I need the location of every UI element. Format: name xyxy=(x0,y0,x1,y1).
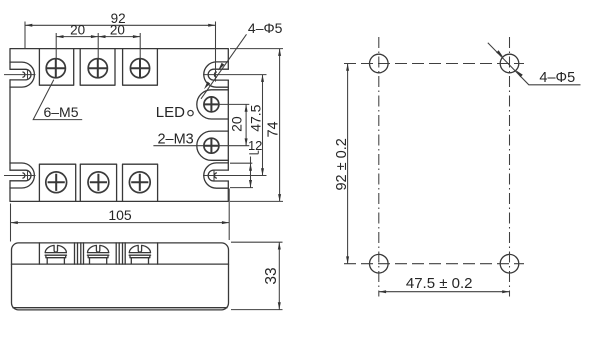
svg-text:92 ± 0.2: 92 ± 0.2 xyxy=(334,138,350,190)
mounting pattern hole top-right xyxy=(500,54,519,73)
control terminal tab upper (LED input) xyxy=(197,90,229,119)
svg-text:20: 20 xyxy=(70,23,85,38)
terminal T4 screw xyxy=(46,172,67,193)
dimension 20 right side (control terminal spacing) xyxy=(218,104,249,145)
dimension 74 right side xyxy=(230,49,283,202)
terminal T3 screw xyxy=(130,59,149,78)
control terminal screw lower xyxy=(204,138,219,153)
side view screw S3 xyxy=(129,245,150,264)
side view screw S2 xyxy=(87,245,108,264)
terminal block T5 square xyxy=(80,164,116,201)
svg-text:20: 20 xyxy=(110,23,125,38)
terminal T1 screw xyxy=(46,59,65,78)
terminal T5 screw xyxy=(88,172,109,193)
label 2-M3 with leader underline xyxy=(153,132,204,148)
mounting ear bottom-left xyxy=(4,163,36,188)
dimension 105 between views xyxy=(11,189,230,242)
dimension 47.5 right side xyxy=(247,75,264,176)
terminal T2 screw xyxy=(88,59,107,78)
top view body outline (slot mouths open at left and right edges) xyxy=(10,49,228,202)
svg-text:33: 33 xyxy=(263,267,280,284)
terminal block T4 square xyxy=(39,164,75,201)
side view base plate line xyxy=(13,307,227,309)
dimension 92 top xyxy=(25,11,216,82)
side view screw S1 xyxy=(45,245,66,264)
mounting pattern hole bottom-right xyxy=(500,254,519,273)
svg-text:12: 12 xyxy=(248,138,262,153)
dimension 92 +/- 0.2 xyxy=(334,64,350,264)
svg-text:47.5: 47.5 xyxy=(247,104,263,131)
label 4-PHI5 right drawing with diameter leader xyxy=(488,43,581,86)
mounting pattern center line bottom xyxy=(344,263,524,265)
side view body outline xyxy=(12,243,229,310)
label 6-M5 with leader xyxy=(33,80,82,120)
control terminal tab lower (2-M3) xyxy=(197,131,229,160)
svg-text:20: 20 xyxy=(229,116,245,132)
svg-text:6–M5: 6–M5 xyxy=(43,104,78,120)
terminal block T2 square xyxy=(80,49,115,86)
mounting pattern center line right xyxy=(509,37,511,297)
mounting ear top-right xyxy=(203,62,267,87)
terminal block T3 square xyxy=(123,49,158,86)
label 4-PHI5 top-left drawing with leader xyxy=(201,20,283,99)
terminal block T6 square xyxy=(123,164,158,201)
mounting ear bottom-right xyxy=(203,163,267,188)
terminal block T1 square xyxy=(39,49,73,86)
terminal T6 screw xyxy=(129,172,150,193)
dimension 20 20 top xyxy=(56,23,140,59)
label LED with indicator circle xyxy=(156,104,193,121)
svg-text:105: 105 xyxy=(108,207,132,223)
side view terminal recess walls xyxy=(39,243,157,264)
dimension 33 side view xyxy=(231,242,283,309)
svg-text:47.5 ± 0.2: 47.5 ± 0.2 xyxy=(406,275,473,292)
side view parting line xyxy=(12,263,229,265)
mounting pattern center line top xyxy=(344,63,524,65)
mounting ear top-left xyxy=(4,62,36,87)
svg-text:4–Φ5: 4–Φ5 xyxy=(539,70,575,86)
mounting pattern hole bottom-left xyxy=(370,254,389,273)
svg-text:74: 74 xyxy=(265,121,281,137)
svg-text:LED: LED xyxy=(156,104,185,121)
svg-text:4–Φ5: 4–Φ5 xyxy=(248,20,283,36)
control terminal screw upper xyxy=(204,97,219,112)
mounting pattern hole top-left xyxy=(370,54,389,73)
dimension 47.5 +/- 0.2 xyxy=(379,275,510,293)
dimension 12 right side (mounting ear width) xyxy=(230,138,262,188)
mounting pattern center line left xyxy=(378,37,380,297)
